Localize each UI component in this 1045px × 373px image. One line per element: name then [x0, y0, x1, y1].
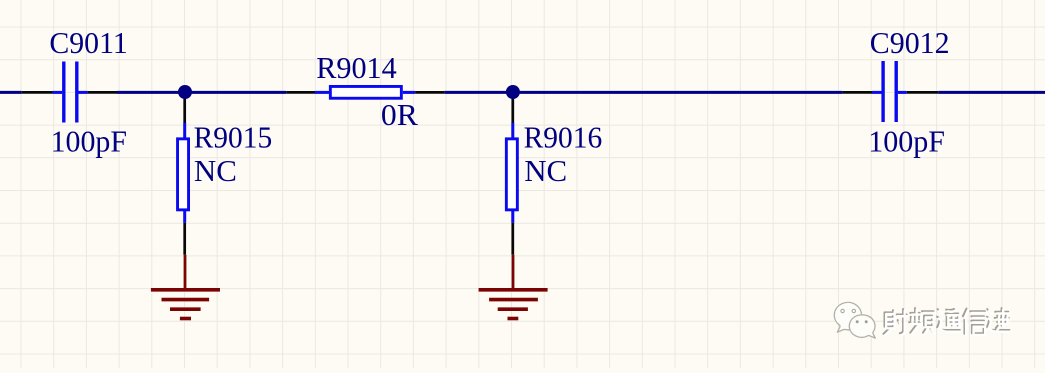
label C9011 (designator) [49, 25, 127, 60]
svg-text:C9011: C9011 [49, 25, 127, 60]
label 100pF (C9012 value) [868, 124, 945, 159]
label R9014 (designator) [316, 50, 397, 85]
label NC (R9016 value) [524, 153, 567, 188]
svg-text:NC: NC [524, 153, 567, 188]
resistor R9015 (pins + body) [178, 92, 189, 255]
svg-text:R9016: R9016 [524, 119, 603, 154]
wire: C9012 to right sheet edge [938, 91, 1045, 94]
label NC (R9015 value) [194, 153, 237, 188]
ground GND1 (power port under R9015) [151, 255, 220, 319]
label R9016 (designator) [524, 119, 603, 154]
junction node A (C9011 / R9015 / R9014) [178, 85, 192, 99]
label R9015 (designator) [194, 119, 273, 154]
ground GND2 (power port under R9016) [479, 255, 548, 319]
label 100pF (C9011 value) [51, 124, 127, 159]
watermark logo (WeChat bubbles) [834, 302, 875, 338]
wire: R9014 to C9012 through node B [444, 91, 842, 94]
svg-text:C9012: C9012 [870, 25, 950, 60]
wire: left net entering sheet to C9011 pin 1 [0, 91, 22, 94]
watermark text 射频通信链 (stylised strokes) [883, 308, 1011, 336]
label C9012 (designator) [870, 25, 950, 60]
svg-text:100pF: 100pF [868, 124, 945, 159]
svg-text:R9015: R9015 [194, 119, 273, 154]
svg-text:R9014: R9014 [316, 50, 397, 85]
capacitor C9011 (pins + plates) [22, 62, 117, 123]
junction node B (R9014 / R9016 / C9012) [506, 85, 520, 99]
capacitor C9012 (pins + plates) [842, 61, 938, 122]
svg-text:100pF: 100pF [51, 124, 127, 159]
wire: C9011 to R9014 through node A [117, 91, 286, 94]
svg-text:0R: 0R [381, 97, 418, 132]
resistor R9014 (pins + body) [286, 86, 444, 98]
resistor R9016 (pins + body) [506, 92, 517, 255]
label 0R (R9014 value) [381, 97, 418, 132]
svg-text:NC: NC [194, 153, 237, 188]
